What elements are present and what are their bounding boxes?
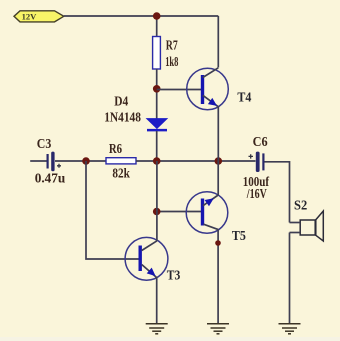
wire: T5 emitter up to middle row (217, 161, 219, 195)
wire: top rail to R7 top (156, 16, 158, 37)
wire: stub to speaker top terminal (290, 222, 301, 224)
svg-text:0.47u: 0.47u (35, 171, 66, 186)
svg-text:12V: 12V (22, 12, 37, 21)
node: junction top rail / R7 (153, 12, 161, 20)
transistor T3 (125, 237, 168, 280)
svg-text:R7: R7 (166, 37, 178, 52)
node: junction R7 bottom / T4 base (153, 85, 161, 93)
wire: T3 emitter down to ground (156, 278, 158, 324)
capacitor C3 (48, 152, 61, 172)
svg-text:C3: C3 (37, 136, 52, 151)
node: junction C3 / T3 base tap (82, 157, 90, 165)
diode D4 (147, 119, 167, 131)
resistor R6 (106, 158, 136, 164)
wire: speaker down to ground (289, 233, 291, 324)
wire: T4 base wire (157, 89, 201, 91)
node: junction middle row / D4 rail (153, 157, 161, 165)
node: junction middle row / T4 emitter-T5 (215, 157, 223, 165)
power flag 12V (14, 11, 64, 22)
capacitor C6 (249, 152, 264, 172)
wire: T4 emitter down to middle row (217, 107, 219, 161)
wire: T5 collector down to ground (217, 230, 219, 324)
wire: R6 right to C6 left plate (136, 160, 256, 162)
svg-text:1N4148: 1N4148 (104, 110, 141, 125)
node: junction left rail / T5 base (153, 208, 161, 216)
svg-text:T5: T5 (232, 228, 246, 243)
transistor T4 (187, 68, 229, 110)
node: junction below T5 (215, 240, 221, 246)
wire: tap down to T3 base (86, 161, 139, 259)
ground below speaker (279, 324, 301, 334)
svg-text:/16V: /16V (246, 186, 267, 201)
ground below T5 (207, 324, 229, 334)
wire: T5 base wire from left rail (157, 211, 201, 213)
wire: T3 collector up to middle row (156, 161, 158, 241)
wire: C3 to R6 left (55, 160, 106, 162)
svg-text:82k: 82k (112, 165, 130, 180)
wire: top rail from 12V flag to top-right corner (64, 15, 219, 17)
wire: D4 cathode down to middle row (156, 131, 158, 161)
ground below T3 (146, 324, 168, 334)
speaker S2 (300, 211, 323, 241)
wire: R7 bottom to D4 anode (156, 69, 158, 122)
svg-text:1k8: 1k8 (165, 54, 178, 69)
svg-text:D4: D4 (114, 93, 128, 108)
wire: C6 right plate to right corner (265, 162, 290, 223)
svg-text:S2: S2 (294, 198, 307, 213)
wire: stub from speaker bottom terminal (290, 232, 301, 234)
svg-text:C6: C6 (253, 134, 268, 149)
svg-text:T4: T4 (237, 90, 251, 105)
wire: T4 collector drop from top rail (217, 16, 219, 68)
transistor T5 (186, 192, 228, 234)
resistor R7 (153, 37, 161, 70)
svg-text:R6: R6 (109, 141, 122, 156)
wire: left lead of C3 (30, 160, 46, 162)
svg-text:T3: T3 (167, 268, 181, 283)
